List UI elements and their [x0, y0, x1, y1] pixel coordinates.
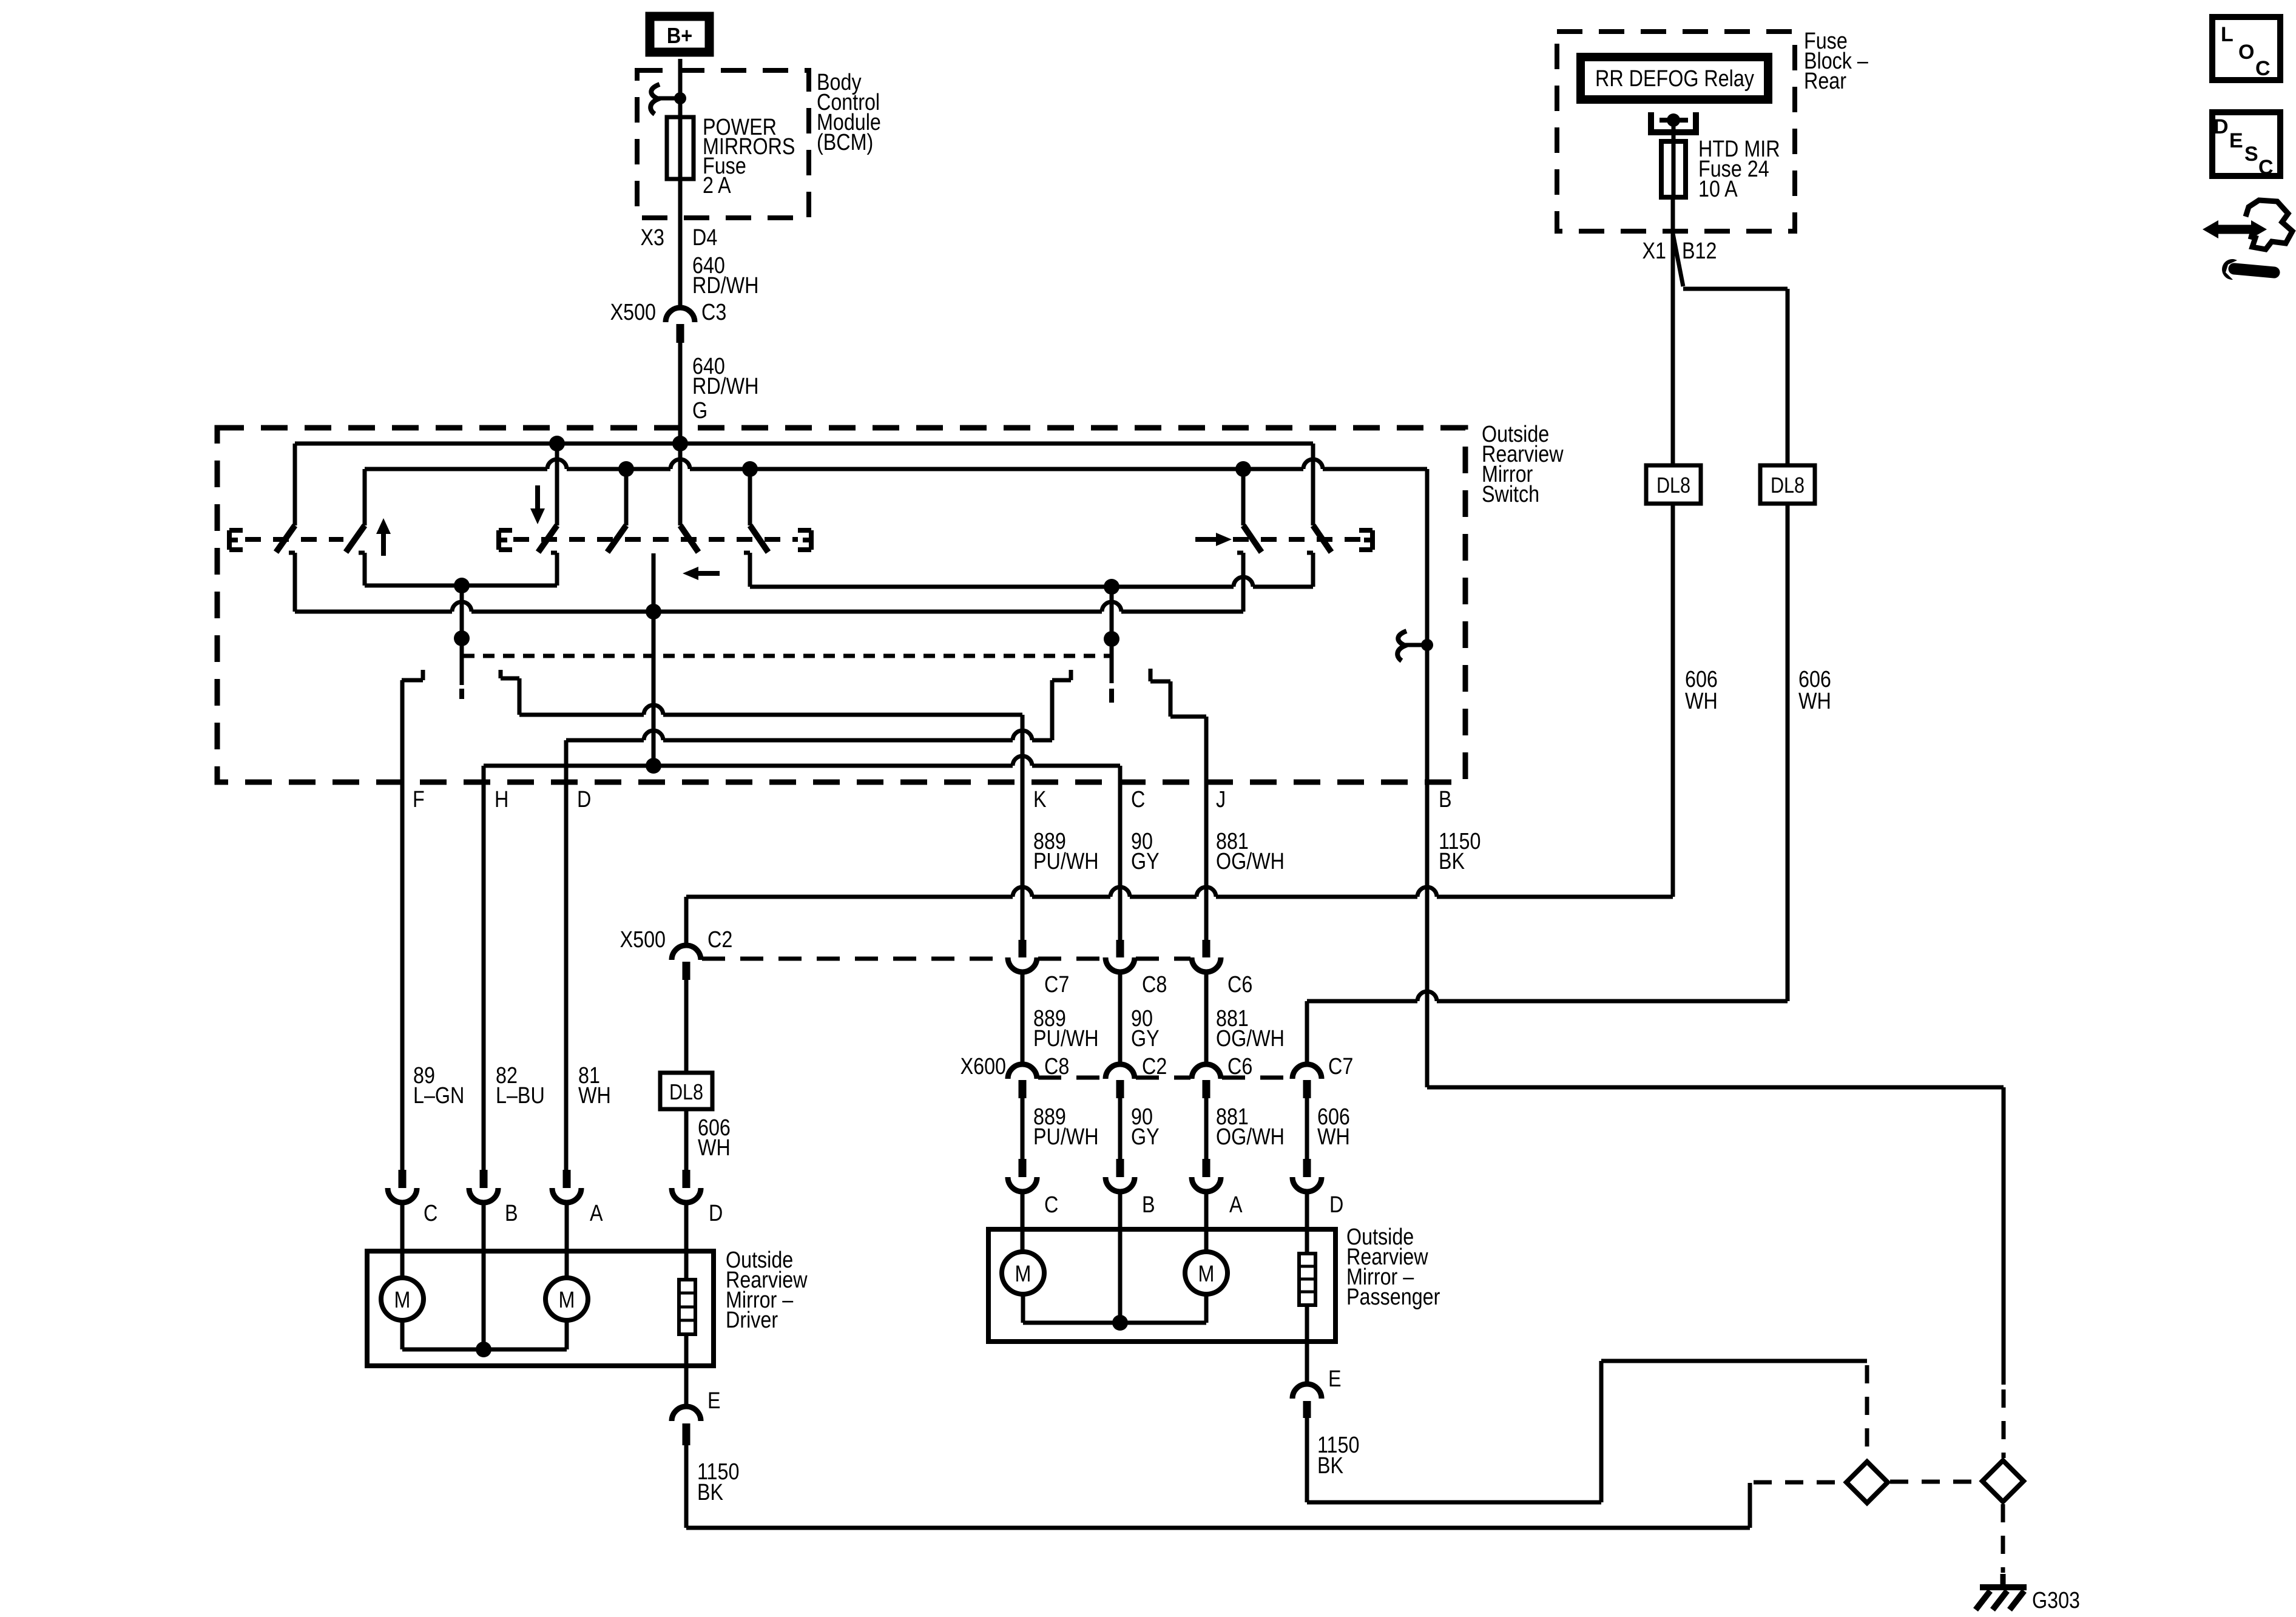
connector C6 (J wire)	[1203, 940, 1210, 957]
driver mirror pin C	[399, 1170, 407, 1188]
driver motor M2	[545, 1278, 588, 1320]
splice diamond (left)	[1846, 1462, 1888, 1503]
wire X600 to passenger C	[1021, 1098, 1025, 1159]
up arrow	[381, 533, 386, 556]
wire down to X600 C7	[1305, 1001, 1309, 1064]
BCM internal connection hook	[650, 84, 660, 114]
switch blade4 (left of wiper)	[607, 525, 626, 552]
wire G into switch	[678, 442, 683, 446]
connector E (passenger)	[1292, 1384, 1322, 1399]
svg-text:RD/WH: RD/WH	[692, 374, 758, 399]
down arrow	[535, 485, 540, 510]
dashed drop to splice right	[2002, 1389, 2006, 1458]
wire K C7 to X600	[1021, 972, 1025, 1064]
passenger mirror pin D	[1303, 1159, 1311, 1177]
svg-text:10 A: 10 A	[1698, 177, 1738, 202]
wire stub H to pin K	[519, 713, 644, 717]
wiper tap right	[1110, 587, 1114, 683]
branch to second DL8 wire	[1673, 234, 1683, 286]
blade6 upper contact wire	[1241, 469, 1246, 525]
svg-text:M: M	[559, 1288, 575, 1313]
blade7 lower contact	[1307, 551, 1313, 555]
svg-text:B+: B+	[667, 24, 692, 48]
wire passenger ground run	[1305, 1418, 1309, 1502]
wire X500 C3 to switch	[678, 343, 683, 444]
svg-text:WH: WH	[578, 1083, 611, 1109]
svg-text:BK: BK	[1439, 849, 1465, 874]
svg-text:B: B	[505, 1201, 518, 1226]
contact stub F	[421, 670, 425, 680]
fuse POWER MIRRORS 2A	[678, 117, 683, 179]
junction bus A	[454, 578, 470, 593]
mirror adjust icon outline	[2246, 200, 2292, 249]
svg-text:D4: D4	[692, 225, 717, 251]
switch blade1	[276, 525, 295, 552]
switch blade5 (wiper)	[680, 525, 698, 552]
wire hook to fuse	[678, 98, 683, 117]
passenger motor interconnect	[1021, 1294, 1025, 1323]
outside rearview mirror switch dashed box	[217, 428, 1465, 782]
svg-text:C7: C7	[1044, 972, 1069, 998]
svg-text:C: C	[1131, 787, 1145, 812]
svg-text:C3: C3	[701, 300, 726, 325]
wire pin B down	[1425, 469, 1430, 1087]
wire DL8 to driver D	[684, 1109, 689, 1170]
wire to pin F	[400, 680, 405, 1170]
outside rearview mirror driver box	[367, 1251, 714, 1366]
switch blade5	[750, 525, 768, 552]
svg-text:D: D	[1329, 1192, 1343, 1218]
wire down to X500 C2	[684, 897, 689, 945]
svg-text:X500: X500	[620, 927, 666, 953]
right arrow	[1195, 537, 1217, 542]
svg-text:M: M	[394, 1288, 411, 1313]
passenger motor M2	[1185, 1252, 1227, 1294]
connector C7 (K wire)	[1019, 940, 1027, 957]
mech link bracket (row C right)	[1370, 530, 1375, 550]
svg-text:X1: X1	[1643, 238, 1666, 264]
driver motor interconnect	[400, 1320, 405, 1349]
driver mirror pin D	[683, 1170, 690, 1188]
wire pin H to pin C	[484, 764, 1013, 768]
bus4 lower	[750, 585, 1234, 589]
svg-text:L: L	[2221, 23, 2234, 46]
svg-text:B12: B12	[1682, 238, 1717, 264]
splice pack DL8 (driver)	[684, 980, 689, 1073]
passenger mirror pin B	[1116, 1159, 1124, 1177]
mech link bracket E (row A)	[227, 530, 232, 550]
contact stub H	[499, 670, 503, 678]
blade1 lower contact	[289, 551, 295, 555]
passenger mirror heater element	[1299, 1254, 1315, 1305]
driver motor M1	[381, 1278, 424, 1320]
svg-text:RR DEFOG Relay: RR DEFOG Relay	[1595, 66, 1754, 92]
svg-text:Switch: Switch	[1482, 482, 1539, 507]
mech link bracket E (row B)	[496, 530, 501, 550]
svg-text:A: A	[590, 1201, 603, 1226]
dashed drop to splice left	[1865, 1365, 1869, 1459]
svg-text:GY: GY	[1131, 849, 1160, 874]
passenger motor M1	[1002, 1252, 1044, 1294]
contact stub J	[1149, 669, 1153, 681]
wire B+ to BCM	[678, 59, 683, 98]
passenger mirror pin A	[1203, 1159, 1210, 1177]
mirror adjust icon arrow	[2216, 225, 2254, 234]
splice pack DL8 (right)	[1760, 465, 1815, 504]
body control module (BCM) dashed box	[637, 70, 809, 218]
relay output pin symbol	[1651, 112, 1696, 132]
svg-text:G: G	[692, 398, 707, 424]
svg-text:D: D	[2213, 115, 2229, 138]
mech link dashes row C	[1233, 537, 1367, 542]
svg-text:B: B	[1142, 1192, 1155, 1218]
svg-text:O: O	[2238, 41, 2254, 64]
svg-text:GY: GY	[1131, 1026, 1160, 1052]
passenger mirror pin C	[1019, 1159, 1027, 1177]
svg-text:OG/WH: OG/WH	[1216, 1026, 1285, 1052]
wire 606 to X600 C7	[1307, 999, 1417, 1004]
switch blade3	[538, 525, 557, 552]
svg-text:PU/WH: PU/WH	[1033, 1124, 1099, 1150]
wire into driver motor 1	[400, 1203, 405, 1278]
wire into driver motor 2	[565, 1203, 569, 1278]
svg-text:DL8: DL8	[1656, 474, 1690, 498]
wire C C8 to X600	[1118, 972, 1123, 1064]
svg-text:(BCM): (BCM)	[817, 130, 873, 155]
svg-text:WH: WH	[1798, 689, 1831, 714]
wire into passenger motor 2	[1204, 1192, 1209, 1252]
wire X600 to passenger A	[1204, 1098, 1209, 1159]
wire DL8 to X500 C2	[686, 895, 1013, 899]
svg-text:OG/WH: OG/WH	[1216, 849, 1285, 874]
wire into passenger common	[1118, 1192, 1123, 1323]
svg-text:J: J	[1216, 787, 1226, 812]
dashed drop splice to ground	[2001, 1504, 2005, 1573]
svg-text:GY: GY	[1131, 1124, 1160, 1150]
svg-text:D: D	[709, 1201, 723, 1226]
dashed run to splice left	[1754, 1480, 1845, 1485]
wire into passenger heater	[1305, 1192, 1309, 1254]
svg-text:E: E	[707, 1388, 721, 1414]
svg-text:M: M	[1015, 1261, 1032, 1287]
bus3 lower	[295, 610, 452, 614]
svg-text:C8: C8	[1044, 1054, 1069, 1079]
svg-text:WH: WH	[698, 1135, 731, 1161]
svg-text:2 A: 2 A	[703, 173, 731, 198]
wire to pin H	[482, 766, 486, 1170]
wiper tap left	[460, 586, 464, 685]
RR DEFOG relay box	[1581, 57, 1768, 100]
blade4 upper contact wire	[624, 469, 629, 525]
svg-text:L–GN: L–GN	[413, 1083, 464, 1109]
fuse block rear dashed box	[1557, 32, 1795, 231]
wire X600 to passenger B	[1118, 1098, 1123, 1159]
blade2 lower contact	[359, 551, 365, 555]
wire to pin J	[1204, 717, 1209, 940]
wire into passenger motor 1	[1021, 1192, 1025, 1252]
junction common stub / H-C line	[646, 758, 661, 774]
wire heater to E (passenger)	[1305, 1305, 1309, 1384]
wire into driver heater	[684, 1203, 689, 1280]
wire stub to pin D	[566, 738, 644, 743]
svg-text:S: S	[2244, 143, 2258, 166]
connector X500 C3	[666, 308, 695, 322]
wire heater to E (driver)	[684, 1334, 689, 1406]
mech link dashes row A	[245, 537, 343, 542]
fuse HTD MIR 24 10A	[1672, 120, 1676, 197]
mech link dashes row B	[513, 537, 798, 542]
svg-text:C6: C6	[1227, 1054, 1252, 1079]
wire DL8 left down	[1671, 504, 1675, 897]
mech link bracket (row B right)	[809, 530, 814, 550]
DESC reference box	[2212, 112, 2280, 176]
svg-text:A: A	[1229, 1192, 1243, 1218]
wiper blade5 wire	[678, 444, 683, 525]
svg-text:Driver: Driver	[726, 1308, 778, 1333]
svg-text:B: B	[1439, 787, 1452, 812]
svg-text:C8: C8	[1142, 972, 1167, 998]
blade1 upper contact wire	[293, 444, 297, 525]
connector E (driver)	[672, 1406, 701, 1421]
svg-text:DL8: DL8	[1771, 474, 1805, 498]
svg-text:C: C	[424, 1201, 437, 1226]
blade5 upper contact wire	[748, 469, 752, 525]
svg-text:PU/WH: PU/WH	[1033, 1026, 1099, 1052]
connector C8 (C wire)	[1116, 940, 1124, 957]
left arrow	[697, 571, 720, 576]
connector dashed line X500 C2 row	[702, 957, 1007, 961]
blade6 lower contact	[1237, 551, 1243, 555]
connector dashed line X600 row	[1038, 1076, 1104, 1080]
junction G/bus1	[672, 436, 688, 451]
wire driver ground run	[684, 1445, 689, 1528]
wire into driver common	[482, 1203, 486, 1349]
switch internal connection hook B	[1397, 631, 1406, 661]
svg-text:M: M	[1198, 1261, 1215, 1287]
svg-text:WH: WH	[1317, 1124, 1350, 1150]
svg-text:RD/WH: RD/WH	[692, 273, 758, 299]
LOC reference box	[2212, 17, 2280, 80]
wire to DL8 right	[1786, 289, 1790, 465]
svg-text:C6: C6	[1227, 972, 1252, 998]
svg-text:F: F	[413, 787, 425, 812]
svg-text:DL8: DL8	[669, 1081, 703, 1105]
driver mirror heater element	[679, 1280, 695, 1334]
wire B to right margin	[1427, 1085, 2004, 1090]
wire to pin K	[1021, 715, 1025, 940]
svg-text:D: D	[577, 787, 591, 812]
junction bus4	[1104, 579, 1119, 595]
blade2 upper contact wire	[363, 469, 367, 525]
mirror adjust icon wrench	[2234, 269, 2274, 272]
wiper mech dashed line	[463, 654, 1110, 658]
bus second	[365, 467, 547, 471]
connector X500 C2	[672, 945, 701, 960]
wire to pin D	[564, 740, 569, 1170]
svg-text:OG/WH: OG/WH	[1216, 1124, 1285, 1150]
wire fuse to connector X500 C3	[678, 179, 683, 310]
blade7 upper contact wire	[1311, 444, 1315, 525]
junction blade3/bus1	[549, 436, 565, 451]
svg-text:PU/WH: PU/WH	[1033, 849, 1099, 874]
svg-text:BK: BK	[697, 1480, 724, 1505]
connector X600 cavity 4	[1292, 1064, 1322, 1079]
svg-text:Passenger: Passenger	[1346, 1284, 1440, 1310]
svg-text:C2: C2	[707, 927, 732, 953]
connector X600 cavity 1	[1008, 1064, 1037, 1079]
svg-text:K: K	[1033, 787, 1047, 812]
svg-text:C: C	[1044, 1192, 1058, 1218]
wire J C6 to X600	[1204, 972, 1209, 1064]
junction bus3 / common stub	[646, 604, 661, 619]
bus top (fed by G)	[295, 442, 1313, 446]
svg-text:X3: X3	[641, 225, 664, 251]
dashed link between splices	[1890, 1480, 1980, 1484]
svg-text:L–BU: L–BU	[496, 1083, 545, 1109]
svg-text:G303: G303	[2032, 1588, 2080, 1613]
svg-text:Rear: Rear	[1804, 69, 1846, 94]
svg-text:C: C	[2255, 57, 2271, 80]
svg-text:X600: X600	[961, 1054, 1006, 1079]
blade3 lower contact	[551, 551, 557, 555]
svg-text:BK: BK	[1317, 1453, 1344, 1479]
wire DL8 right down	[1786, 504, 1790, 1001]
battery feed B+ symbol	[650, 16, 709, 52]
svg-text:E: E	[2229, 129, 2243, 152]
blade5 lower contact	[744, 551, 750, 555]
svg-text:C2: C2	[1142, 1054, 1167, 1079]
driver mirror pin A	[563, 1170, 571, 1188]
ground G303 symbol	[2001, 1574, 2006, 1585]
svg-text:C: C	[2258, 156, 2274, 179]
connector X600 cavity 2	[1106, 1064, 1135, 1079]
common stub wire	[652, 553, 656, 766]
svg-text:WH: WH	[1685, 689, 1718, 714]
svg-text:H: H	[495, 787, 508, 812]
junction dots bus2	[618, 461, 634, 477]
splice pack DL8 (left)	[1646, 465, 1701, 504]
svg-text:C7: C7	[1328, 1054, 1353, 1079]
switch blade7	[1313, 525, 1331, 552]
switch blade2	[346, 525, 365, 552]
switch blade6	[1243, 525, 1261, 552]
blade3 upper contact wire	[555, 444, 559, 525]
driver mirror pin B	[480, 1170, 488, 1188]
svg-text:E: E	[1328, 1366, 1342, 1392]
contact stub D	[1069, 670, 1073, 680]
wire X600 to passenger D	[1305, 1098, 1309, 1159]
svg-text:X500: X500	[610, 300, 656, 325]
wire fuse to branch	[1671, 197, 1675, 465]
outside rearview mirror passenger box	[988, 1229, 1335, 1342]
splice diamond (right)	[1982, 1460, 2024, 1502]
connector X600 cavity 3	[1192, 1064, 1221, 1079]
wire to pin C	[1118, 766, 1123, 940]
bus A lower	[365, 584, 557, 588]
